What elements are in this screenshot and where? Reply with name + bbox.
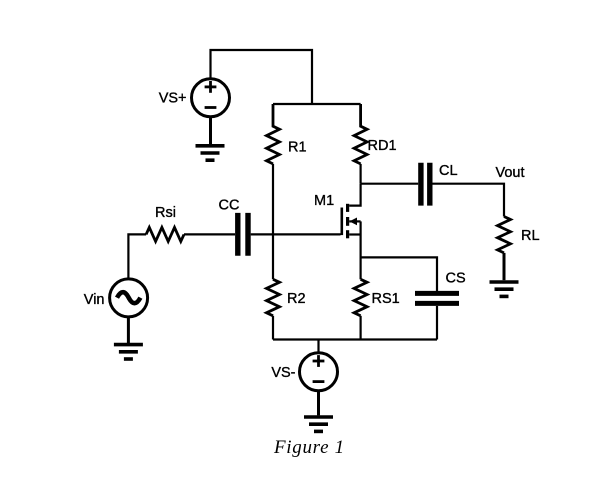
wire VS+ to ground: [209, 117, 212, 145]
voltage source VS+: [192, 79, 230, 117]
svg-text:Figure 1: Figure 1: [273, 437, 345, 458]
svg-text:VS+: VS+: [159, 91, 187, 107]
wire R2 to bottom rail: [272, 316, 274, 340]
resistor R2: [267, 279, 280, 316]
wire source to RS1: [360, 235, 362, 280]
label CS: [446, 271, 466, 287]
resistor Rsi: [146, 227, 184, 241]
svg-text:CS: CS: [446, 271, 466, 287]
voltage source Vin: [110, 279, 148, 317]
ground (VS-): [304, 417, 333, 431]
wire Rsi to CC: [184, 233, 235, 235]
label R1: [288, 140, 307, 156]
svg-text:M1: M1: [314, 193, 334, 209]
resistor R1: [267, 104, 280, 164]
wire Vin to ground: [127, 317, 130, 343]
wire VS- to ground: [317, 391, 320, 416]
label RL: [521, 228, 540, 244]
label Vin: [84, 292, 105, 308]
label R2: [287, 291, 306, 307]
label VS-: [271, 365, 295, 381]
wire source branch to CS: [361, 257, 437, 291]
wire bottom rail to VS-: [317, 340, 319, 353]
svg-text:Rsi: Rsi: [155, 205, 176, 221]
resistor RD1: [354, 104, 367, 164]
wire Vin corner to Rsi: [128, 234, 146, 278]
wire bottom rail: [273, 338, 437, 340]
svg-text:Vin: Vin: [84, 292, 105, 308]
wire CL to Vout corner: [433, 184, 505, 217]
svg-text:RD1: RD1: [368, 138, 397, 154]
resistor RS1: [354, 279, 367, 316]
svg-text:CC: CC: [219, 198, 240, 214]
wire RD1 to drain node: [360, 164, 362, 184]
label CL: [439, 163, 458, 179]
voltage source VS-: [300, 353, 338, 391]
resistor RL: [498, 217, 511, 253]
svg-text:RL: RL: [521, 228, 540, 244]
wire RS1 to bottom rail: [360, 316, 362, 340]
wire CS to bottom rail: [436, 306, 438, 340]
capacitor CL: [421, 163, 430, 206]
label VS+: [159, 91, 187, 107]
label CC: [219, 198, 240, 214]
label Vout: [496, 165, 525, 181]
wire R1-RD1 top rail: [273, 103, 361, 105]
ground (Vin): [114, 345, 143, 359]
caption Figure 1: [273, 437, 345, 458]
ground (RL): [490, 282, 519, 296]
ground (VS+): [196, 146, 225, 160]
label RD1: [368, 138, 397, 154]
wire top rail: [211, 50, 313, 104]
svg-text:VS-: VS-: [271, 365, 295, 381]
wire drain node to CL: [361, 183, 419, 185]
svg-text:R1: R1: [288, 140, 307, 156]
svg-text:CL: CL: [439, 163, 458, 179]
wire RL to ground: [503, 253, 506, 280]
transistor M1: [342, 184, 361, 239]
wire R1 bottom to gate wire to R2: [272, 164, 274, 279]
svg-text:RS1: RS1: [372, 291, 400, 307]
capacitor CS: [415, 293, 459, 303]
label M1: [314, 193, 334, 209]
svg-text:Vout: Vout: [496, 165, 525, 181]
svg-text:R2: R2: [287, 291, 306, 307]
label RS1: [372, 291, 400, 307]
capacitor CC: [238, 213, 248, 256]
wire CC to gate: [251, 233, 341, 235]
label Rsi: [155, 205, 176, 221]
